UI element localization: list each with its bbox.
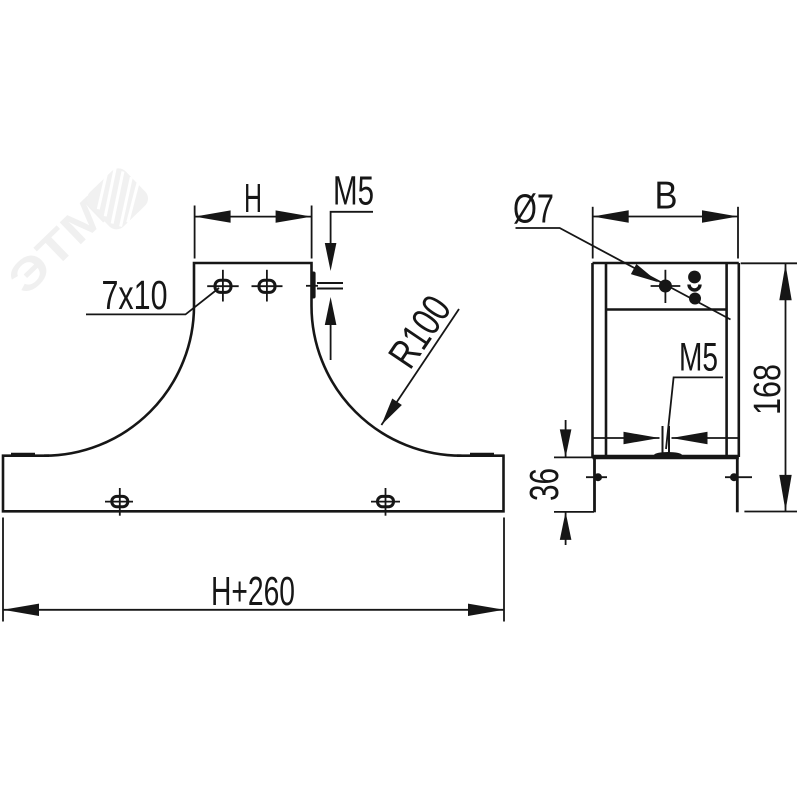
svg-text:168: 168 <box>747 364 789 415</box>
svg-text:B: B <box>655 175 678 218</box>
svg-text:M5: M5 <box>679 335 718 379</box>
svg-text:H: H <box>244 175 262 221</box>
svg-text:M5: M5 <box>333 168 374 214</box>
svg-text:R100: R100 <box>379 287 460 376</box>
svg-text:36: 36 <box>521 468 567 501</box>
svg-text:7x10: 7x10 <box>102 272 168 318</box>
svg-text:H+260: H+260 <box>211 568 295 614</box>
svg-text:Ø7: Ø7 <box>513 185 554 231</box>
